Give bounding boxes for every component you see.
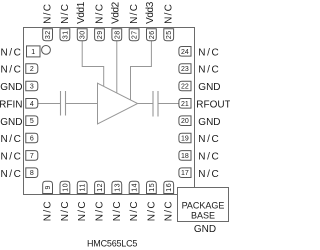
- svg-text:RFIN: RFIN: [0, 99, 23, 110]
- svg-text:N/C: N/C: [0, 134, 22, 145]
- svg-text:8: 8: [30, 170, 34, 177]
- svg-text:13: 13: [114, 183, 121, 192]
- svg-text:N/C: N/C: [129, 3, 140, 24]
- svg-text:7: 7: [30, 153, 34, 160]
- svg-text:N/C: N/C: [43, 200, 54, 221]
- svg-text:GND: GND: [198, 82, 220, 93]
- svg-text:11: 11: [80, 183, 87, 191]
- svg-text:25: 25: [166, 30, 173, 39]
- svg-text:N/C: N/C: [198, 47, 220, 58]
- svg-text:N/C: N/C: [198, 169, 220, 180]
- svg-text:23: 23: [181, 66, 189, 73]
- svg-text:19: 19: [181, 136, 189, 143]
- svg-text:26: 26: [149, 30, 156, 39]
- svg-text:12: 12: [97, 183, 104, 192]
- svg-text:14: 14: [132, 183, 139, 192]
- svg-text:9: 9: [45, 185, 52, 189]
- svg-text:30: 30: [80, 30, 87, 39]
- svg-text:5: 5: [30, 118, 34, 125]
- svg-text:31: 31: [62, 30, 69, 39]
- svg-text:17: 17: [181, 170, 189, 177]
- svg-text:N/C: N/C: [0, 47, 22, 58]
- svg-text:10: 10: [62, 183, 69, 192]
- svg-text:N/C: N/C: [198, 134, 220, 145]
- svg-text:PACKAGE: PACKAGE: [182, 200, 225, 210]
- svg-text:24: 24: [181, 49, 189, 56]
- svg-text:N/C: N/C: [198, 152, 220, 163]
- svg-text:HMC565LC5: HMC565LC5: [87, 239, 137, 249]
- svg-text:N/C: N/C: [95, 3, 106, 24]
- svg-text:Vdd3: Vdd3: [145, 1, 156, 24]
- svg-text:32: 32: [45, 30, 52, 39]
- svg-text:GND: GND: [194, 224, 216, 235]
- svg-text:N/C: N/C: [60, 3, 71, 24]
- svg-text:21: 21: [181, 101, 189, 108]
- svg-text:RFOUT: RFOUT: [196, 99, 230, 110]
- svg-text:18: 18: [181, 153, 189, 160]
- svg-text:6: 6: [30, 136, 34, 143]
- svg-text:N/C: N/C: [164, 3, 175, 24]
- svg-text:3: 3: [30, 84, 34, 91]
- svg-text:4: 4: [30, 101, 34, 108]
- svg-text:29: 29: [97, 30, 104, 39]
- svg-text:N/C: N/C: [0, 65, 22, 76]
- svg-text:N/C: N/C: [146, 200, 157, 221]
- svg-text:N/C: N/C: [0, 169, 22, 180]
- svg-text:N/C: N/C: [95, 200, 106, 221]
- svg-text:27: 27: [132, 30, 139, 39]
- svg-text:22: 22: [181, 84, 189, 91]
- svg-text:N/C: N/C: [0, 152, 22, 163]
- svg-text:Vdd1: Vdd1: [76, 1, 87, 24]
- svg-text:N/C: N/C: [129, 200, 140, 221]
- svg-text:2: 2: [30, 66, 34, 73]
- svg-text:N/C: N/C: [60, 200, 71, 221]
- svg-text:N/C: N/C: [198, 65, 220, 76]
- svg-text:15: 15: [149, 183, 156, 192]
- svg-text:N/C: N/C: [77, 200, 88, 221]
- svg-text:GND: GND: [0, 117, 22, 128]
- svg-text:GND: GND: [0, 82, 22, 93]
- svg-text:N/C: N/C: [112, 200, 123, 221]
- svg-text:Vdd2: Vdd2: [110, 1, 121, 24]
- svg-text:BASE: BASE: [191, 210, 215, 220]
- svg-text:16: 16: [166, 183, 173, 192]
- svg-text:28: 28: [114, 30, 121, 39]
- svg-text:20: 20: [181, 118, 189, 125]
- svg-text:N/C: N/C: [43, 3, 54, 24]
- svg-text:1: 1: [31, 49, 35, 56]
- svg-text:N/C: N/C: [164, 200, 175, 221]
- svg-text:GND: GND: [198, 117, 220, 128]
